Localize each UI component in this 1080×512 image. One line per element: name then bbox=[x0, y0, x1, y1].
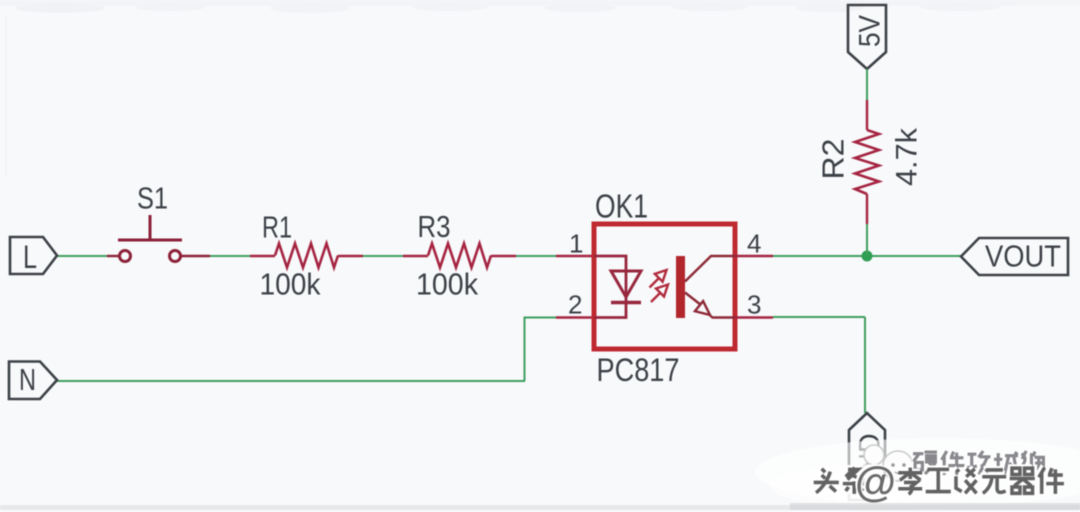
ground terminal GND bbox=[849, 413, 887, 500]
svg-text:L: L bbox=[23, 239, 37, 275]
svg-text:2: 2 bbox=[568, 290, 582, 320]
watermark lion icon bbox=[864, 445, 913, 481]
wire L to S1 bbox=[57, 255, 119, 257]
resistor R3 bbox=[428, 244, 491, 268]
terminal L bbox=[10, 237, 57, 275]
photo-transistor inside OK1 bbox=[676, 256, 735, 318]
power terminal 5V bbox=[848, 5, 887, 69]
svg-text:OK1: OK1 bbox=[595, 188, 648, 225]
wire R2 to junction bbox=[866, 194, 868, 255]
watermark glow bbox=[755, 438, 1080, 509]
resistor R1 bbox=[275, 244, 338, 268]
svg-text:1: 1 bbox=[569, 228, 583, 258]
LED inside OK1 bbox=[594, 256, 641, 318]
switch S1 bbox=[118, 215, 182, 262]
svg-text:S1: S1 bbox=[137, 181, 168, 216]
watermark text 头条@李工谈元器件 bbox=[812, 458, 1067, 505]
svg-text:N: N bbox=[19, 362, 36, 397]
watermark text 硬件攻城狮 bbox=[911, 449, 1046, 476]
wire N net elbow to OK1 pin2 bbox=[525, 317, 595, 382]
svg-text:PC817: PC817 bbox=[597, 352, 680, 388]
svg-text:100k: 100k bbox=[416, 267, 478, 302]
svg-text:VOUT: VOUT bbox=[985, 239, 1061, 274]
svg-text:3: 3 bbox=[747, 290, 761, 320]
wire R3 to OK1 pin1 bbox=[491, 255, 594, 257]
svg-text:R3: R3 bbox=[418, 209, 451, 244]
svg-text:@: @ bbox=[855, 458, 896, 505]
bottom grey band artifact bbox=[0, 505, 1080, 510]
wire S1 to R1 bbox=[181, 255, 275, 257]
svg-text:4: 4 bbox=[747, 228, 761, 258]
wire R1 to R3 bbox=[338, 255, 428, 257]
svg-text:R1: R1 bbox=[262, 210, 292, 245]
wire pin3 to GND bbox=[735, 317, 865, 413]
svg-text:5V: 5V bbox=[854, 15, 887, 47]
svg-text:4.7k: 4.7k bbox=[891, 127, 924, 186]
light arrows bbox=[650, 270, 669, 302]
terminal VOUT bbox=[961, 238, 1068, 275]
wire N to elbow bbox=[57, 380, 525, 382]
svg-text:R2: R2 bbox=[816, 139, 851, 180]
terminal N bbox=[9, 362, 57, 400]
svg-text:100k: 100k bbox=[260, 267, 321, 302]
resistor R2 bbox=[855, 130, 879, 194]
wire pin4 to junction to VOUT bbox=[735, 255, 961, 257]
junction dot bbox=[862, 251, 873, 262]
opto-coupler OK1 box bbox=[594, 224, 735, 349]
wire 5V to R2 bbox=[866, 69, 868, 130]
